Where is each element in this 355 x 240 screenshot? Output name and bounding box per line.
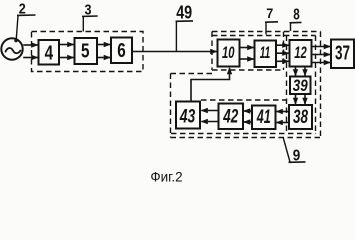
block 41 [252, 106, 276, 130]
block 43 [176, 102, 200, 129]
label 2 [14, 1, 35, 43]
svg-text:10: 10 [222, 43, 235, 62]
dashed box 8 left edge [286, 36, 288, 134]
block 4 [39, 40, 60, 65]
wire 42 to 43 [202, 111, 219, 122]
dashed box 7 left edge [211, 32, 213, 71]
label 8 [290, 6, 302, 31]
svg-text:49: 49 [176, 3, 192, 23]
wire 41 to 42 [244, 111, 252, 122]
wire 4 to 5 [59, 45, 74, 58]
svg-text:38: 38 [293, 107, 308, 128]
label 3 [82, 1, 98, 31]
svg-text:41: 41 [256, 107, 271, 128]
label 7 [265, 5, 278, 34]
svg-text:Фиг.2: Фиг.2 [150, 170, 182, 185]
svg-text:8: 8 [293, 6, 300, 23]
AC source 2 [1, 38, 22, 59]
wire 5 to 6 [97, 45, 110, 58]
dashed box 7 top edge [212, 35, 316, 37]
wire 38 to 41 [277, 112, 290, 123]
label 9 [283, 138, 305, 165]
wire source to block 4 [23, 45, 37, 58]
feedback wire 43 to 10 [191, 68, 230, 102]
svg-text:6: 6 [117, 40, 126, 62]
block 37 [331, 40, 354, 69]
block 10 [218, 40, 240, 67]
dashed box 3 [32, 32, 144, 72]
block 5 [75, 38, 98, 64]
wire 49 from 6 to 10 [132, 51, 217, 53]
svg-text:39: 39 [293, 76, 308, 95]
label 49 [176, 3, 194, 52]
block 39 [290, 76, 311, 95]
svg-text:43: 43 [179, 106, 196, 127]
block 12 [290, 40, 312, 67]
dashed box 8 right edge [315, 36, 317, 134]
svg-text:7: 7 [266, 5, 273, 21]
wire 12 to 39 [296, 67, 306, 76]
block 6 [111, 38, 132, 64]
dashed box 9 outer bottom edge [171, 137, 321, 139]
block 11 [255, 41, 277, 68]
dashed box 9 inner bottom edge [171, 133, 316, 135]
wire 39 to 38 [296, 94, 306, 104]
svg-text:42: 42 [222, 106, 238, 127]
wire 11 to 12 [276, 45, 289, 61]
svg-text:5: 5 [81, 41, 90, 63]
dashed outer box top edge [212, 31, 321, 33]
dashed box 9 step edge [171, 73, 213, 75]
wire 10 to 11 [240, 48, 254, 60]
svg-text:37: 37 [335, 43, 350, 65]
svg-text:11: 11 [260, 43, 271, 62]
dashed box 9 inner top edge [201, 99, 286, 101]
block 42 [219, 104, 244, 130]
svg-text:4: 4 [45, 42, 54, 64]
dashed box 9 left edge [170, 74, 172, 138]
dashed box 7 right edge [283, 32, 285, 71]
block 38 [289, 105, 312, 129]
wire 12 to 37 [312, 47, 331, 63]
dashed box 7 bottom edge [212, 69, 284, 71]
svg-text:12: 12 [294, 43, 307, 62]
dashed outer box right edge [320, 32, 322, 138]
